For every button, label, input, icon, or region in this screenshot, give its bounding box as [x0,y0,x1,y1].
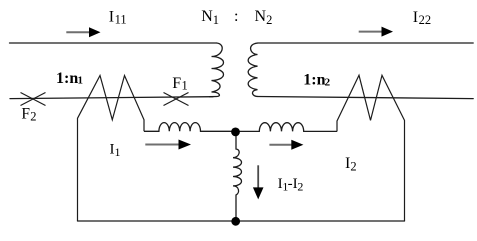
svg-text:2: 2 [350,159,356,173]
svg-text:I: I [413,9,418,26]
svg-text:1: 1 [78,74,84,86]
svg-text:1: 1 [213,13,219,27]
svg-text:2: 2 [30,110,36,124]
svg-text:22: 22 [419,13,432,27]
svg-text::: : [234,8,238,25]
svg-text:2: 2 [325,76,331,88]
svg-text:1: 1 [115,145,121,159]
svg-text:1:n: 1:n [303,72,325,89]
svg-text:2: 2 [266,13,272,27]
svg-text:11: 11 [115,12,127,26]
svg-text:1:n: 1:n [56,70,78,87]
svg-text:N: N [201,8,213,25]
svg-text:1: 1 [182,78,188,92]
svg-text:N: N [255,8,267,25]
svg-text:F: F [172,75,181,92]
svg-text:2: 2 [297,180,303,194]
svg-text:I: I [109,9,114,26]
svg-text:F: F [21,106,30,123]
svg-text:-I: -I [288,176,298,192]
